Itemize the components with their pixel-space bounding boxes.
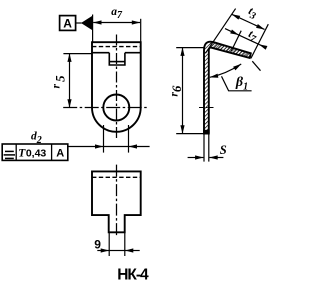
svg-text:НК-4: НК-4	[117, 267, 149, 284]
a7 right extension line	[140, 19, 142, 42]
dimension S line left	[188, 157, 204, 159]
svg-text:A: A	[63, 16, 72, 30]
S left extension line	[203, 134, 205, 162]
tolerance frame divider 2	[51, 144, 53, 160]
datum leader	[76, 22, 82, 24]
horizontal center line front view	[63, 107, 149, 109]
datum box A	[60, 16, 76, 31]
tolerance frame	[2, 144, 68, 160]
dimension a7 line	[93, 22, 140, 24]
bottom view dashed line	[92, 176, 141, 178]
svg-text:S: S	[220, 143, 227, 157]
dimension S line right	[209, 157, 223, 159]
flange extra hatching	[210, 42, 251, 58]
beta1 leader	[222, 76, 252, 91]
dimension d2 line left tail	[68, 146, 103, 148]
symmetry symbol	[4, 151, 15, 158]
vertical center line front view	[116, 35, 118, 140]
datum triangle	[81, 16, 93, 31]
dimension 9 line left tail	[97, 250, 109, 252]
svg-text:A: A	[56, 147, 64, 159]
dimension t7 middle	[239, 35, 259, 45]
extension line below flange tip	[252, 61, 260, 70]
bottom view center line	[116, 165, 118, 236]
a7 left extension line	[92, 15, 94, 43]
notch inner line	[109, 61, 125, 63]
notch	[109, 53, 125, 65]
svg-text:9: 9	[94, 238, 101, 252]
S right extension line	[208, 134, 210, 162]
r6 top extension line	[176, 47, 203, 49]
front view outline	[92, 42, 141, 107]
dimension r6 line	[182, 48, 184, 134]
9 left extension line	[108, 233, 110, 256]
d2 right extension line	[128, 125, 130, 153]
d2 left extension line	[103, 125, 105, 153]
dimension r5 line	[69, 54, 71, 108]
bottom view outline	[92, 171, 141, 232]
dimension t7 left tail	[225, 29, 239, 35]
t7 left extension line	[231, 31, 241, 51]
dimension 9 line right tail	[125, 250, 140, 252]
r6 bottom extension line	[176, 133, 203, 135]
t3 left extension line	[205, 9, 235, 54]
svg-text:T0,43: T0,43	[18, 148, 46, 160]
tolerance frame divider 1	[15, 144, 17, 160]
t3 right extension line	[251, 24, 268, 58]
dimension d2 line middle	[103, 146, 128, 148]
dimension d2 line right tail	[129, 146, 150, 148]
beta1 angle arc	[210, 64, 241, 77]
dimension 9 line middle	[109, 250, 125, 252]
bend line (dashed)	[92, 46, 141, 48]
9 right extension line	[124, 233, 126, 256]
side view section outline	[204, 42, 251, 134]
r5 top extension line	[63, 53, 91, 55]
hole circle	[103, 95, 129, 121]
strip bottom dense area	[203, 130, 209, 134]
shoulder line left	[92, 52, 109, 54]
front view semicircular bottom	[92, 108, 141, 132]
dimension t3 line	[232, 14, 265, 29]
side view center tick	[199, 107, 214, 109]
shoulder line right	[125, 52, 141, 54]
dimension t7 right tail	[259, 44, 266, 47]
